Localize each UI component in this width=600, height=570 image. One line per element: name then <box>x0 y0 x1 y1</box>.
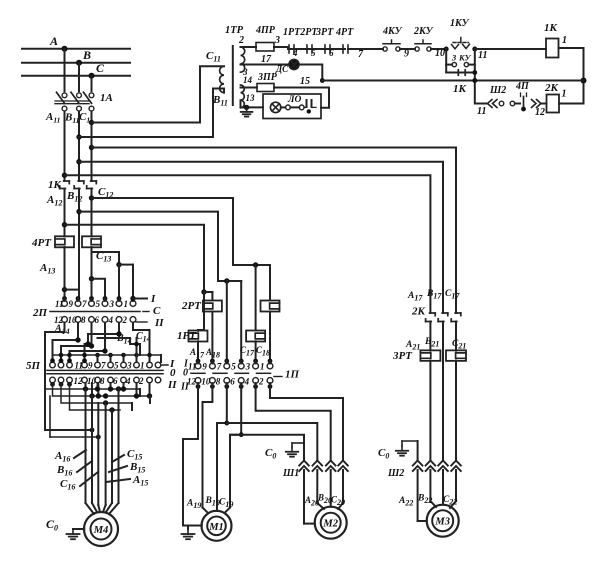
svg-text:7: 7 <box>101 361 106 371</box>
svg-text:4РТ: 4РТ <box>335 27 354 38</box>
svg-text:1: 1 <box>140 361 145 371</box>
svg-text:С17: С17 <box>445 289 460 301</box>
svg-text:2: 2 <box>238 35 244 46</box>
svg-text:17: 17 <box>261 54 272 65</box>
svg-text:С: С <box>153 305 161 317</box>
svg-text:II: II <box>167 379 177 391</box>
svg-text:13: 13 <box>246 93 256 103</box>
svg-text:1П: 1П <box>285 369 300 381</box>
svg-text:Ш2: Ш2 <box>489 85 506 96</box>
svg-text:3ПР: 3ПР <box>257 72 278 83</box>
svg-text:ДС: ДС <box>275 64 289 74</box>
svg-text:4: 4 <box>292 48 298 58</box>
svg-text:М2: М2 <box>322 519 338 530</box>
svg-text:М3: М3 <box>434 517 450 528</box>
svg-text:10: 10 <box>201 377 211 387</box>
svg-text:11: 11 <box>75 361 84 371</box>
svg-text:2К: 2К <box>544 82 559 94</box>
svg-text:II: II <box>154 317 164 329</box>
svg-text:В19: В19 <box>205 496 220 508</box>
svg-text:4РТ: 4РТ <box>31 237 52 249</box>
svg-text:А17: А17 <box>407 291 423 303</box>
svg-text:5: 5 <box>114 361 119 371</box>
svg-text:3: 3 <box>274 35 280 46</box>
svg-text:14: 14 <box>243 75 253 85</box>
svg-text:1К: 1К <box>48 179 62 191</box>
svg-text:1А: 1А <box>100 92 113 104</box>
svg-text:5: 5 <box>311 48 316 58</box>
svg-text:6: 6 <box>113 376 118 386</box>
svg-text:11: 11 <box>477 106 486 117</box>
svg-text:0: 0 <box>170 367 176 379</box>
svg-text:9: 9 <box>202 362 207 372</box>
svg-text:М4: М4 <box>93 525 109 536</box>
svg-text:12: 12 <box>74 376 84 386</box>
svg-text:С21: С21 <box>452 339 466 351</box>
svg-text:15: 15 <box>300 76 310 87</box>
svg-text:3РТ: 3РТ <box>315 27 334 38</box>
svg-text:2: 2 <box>122 315 128 325</box>
svg-text:10: 10 <box>68 315 78 325</box>
svg-text:2РТ: 2РТ <box>181 300 202 312</box>
svg-text:2: 2 <box>258 377 264 387</box>
svg-text:6: 6 <box>230 377 235 387</box>
svg-text:4П: 4П <box>515 81 530 92</box>
svg-text:8: 8 <box>216 377 221 387</box>
svg-text:0: 0 <box>183 368 188 379</box>
svg-text:2К: 2К <box>411 306 426 318</box>
svg-text:1КУ: 1КУ <box>450 18 470 29</box>
svg-text:7: 7 <box>82 299 87 309</box>
svg-text:3РТ: 3РТ <box>392 350 413 362</box>
svg-text:6: 6 <box>95 315 100 325</box>
svg-text:10: 10 <box>435 48 445 59</box>
svg-text:А: А <box>49 34 58 48</box>
svg-text:Ш1: Ш1 <box>282 468 299 479</box>
svg-text:8: 8 <box>100 376 105 386</box>
svg-text:В22: В22 <box>417 494 432 506</box>
svg-text:1К: 1К <box>544 22 558 34</box>
svg-text:1РТ2РТ: 1РТ2РТ <box>283 27 318 38</box>
svg-text:С19: С19 <box>219 498 233 510</box>
svg-text:В: В <box>82 48 91 62</box>
svg-text:11: 11 <box>188 362 197 372</box>
svg-text:I: I <box>150 293 156 305</box>
svg-text:4КУ: 4КУ <box>382 26 403 37</box>
svg-text:М1: М1 <box>208 522 224 533</box>
svg-text:4ПР: 4ПР <box>255 25 276 36</box>
svg-text:1: 1 <box>124 299 129 309</box>
svg-text:3: 3 <box>126 361 132 371</box>
svg-text:11: 11 <box>55 299 64 309</box>
svg-text:5: 5 <box>231 362 236 372</box>
svg-text:1: 1 <box>562 89 567 100</box>
svg-text:ЛО: ЛО <box>287 95 302 105</box>
svg-text:3: 3 <box>109 299 115 309</box>
svg-text:6: 6 <box>329 48 334 58</box>
svg-text:Ш2: Ш2 <box>387 468 404 479</box>
svg-text:1: 1 <box>260 362 265 372</box>
svg-text:2КУ: 2КУ <box>413 26 434 37</box>
svg-text:II: II <box>180 382 190 393</box>
svg-text:1РТ: 1РТ <box>177 330 197 342</box>
svg-text:4: 4 <box>125 376 131 386</box>
svg-text:А22: А22 <box>398 496 413 508</box>
svg-text:9: 9 <box>404 49 409 60</box>
svg-text:2П: 2П <box>32 307 48 319</box>
svg-text:7: 7 <box>217 362 222 372</box>
svg-text:4: 4 <box>108 315 114 325</box>
svg-text:2: 2 <box>138 376 144 386</box>
svg-text:9: 9 <box>88 361 93 371</box>
svg-text:1К: 1К <box>453 83 467 95</box>
svg-text:1: 1 <box>562 35 567 46</box>
svg-text:5: 5 <box>96 299 101 309</box>
svg-text:5П: 5П <box>26 360 41 372</box>
svg-text:9: 9 <box>69 299 74 309</box>
svg-text:4: 4 <box>244 377 250 387</box>
svg-text:3: 3 <box>245 362 251 372</box>
svg-text:3: 3 <box>451 53 457 63</box>
svg-text:12: 12 <box>535 107 545 118</box>
svg-text:КУ: КУ <box>458 53 472 63</box>
svg-text:11: 11 <box>478 50 487 61</box>
svg-text:В17: В17 <box>426 289 442 301</box>
svg-text:8: 8 <box>81 315 86 325</box>
svg-text:А19: А19 <box>186 499 201 511</box>
svg-text:В21: В21 <box>424 337 439 349</box>
svg-text:С: С <box>96 61 105 75</box>
